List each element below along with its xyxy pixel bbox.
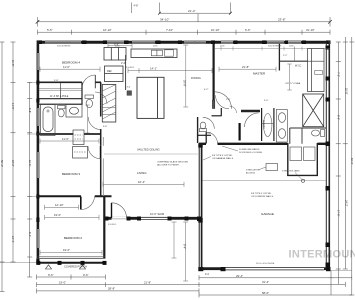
bedroom4 dim line (40, 67, 100, 72)
wall bedroom2 south window band (37, 257, 106, 259)
svg-text:11'-8": 11'-8" (11, 60, 15, 66)
hall bath2 walls (198, 108, 222, 143)
wall bedroom4 south (39, 81, 101, 83)
shower east wall (301, 128, 303, 144)
svg-text:16'-0 x 8'-0 OH DR: 16'-0 x 8'-0 OH DR (256, 263, 275, 265)
svg-text:12'-10": 12'-10" (55, 203, 64, 207)
wall posts top (37, 40, 331, 44)
porch footing triangle 1 (46, 265, 52, 269)
window labels top (57, 46, 294, 48)
kitchen sink (151, 50, 162, 56)
wall closet south (39, 98, 82, 100)
svg-text:GARAGE: GARAGE (261, 212, 274, 216)
svg-text:5'-0 R.O.: 5'-0 R.O. (108, 224, 117, 226)
svg-text:18'-2": 18'-2" (11, 160, 15, 167)
svg-text:8'-4": 8'-4" (183, 244, 187, 249)
svg-text:31'-10": 31'-10" (306, 28, 315, 32)
svg-text:2'-8": 2'-8" (226, 99, 231, 101)
wall bath1 south (37, 133, 74, 135)
svg-text:4'-0: 4'-0 (205, 273, 210, 276)
svg-text:24'-2": 24'-2" (345, 200, 349, 207)
dim bottom B1 (37, 275, 106, 280)
master bath vanity counter (241, 110, 260, 113)
door opening entry south (112, 217, 127, 220)
dim bottom B3 (37, 288, 200, 293)
living dim line (103, 182, 184, 187)
window W8 bedroom4 left (37, 53, 40, 70)
svg-text:INTERMOUNTAIN WEST: INTERMOUNTAIN WEST (289, 249, 355, 261)
door wic2 arc (216, 95, 230, 109)
kitchen upper counter (131, 49, 177, 58)
wall house/garage north (199, 143, 327, 145)
svg-text:5'-8": 5'-8" (28, 108, 31, 113)
master bath cabinets east (308, 49, 325, 92)
porch beam with posts (36, 261, 106, 265)
garage note common wall (251, 193, 274, 198)
bath2 toilet (200, 122, 207, 132)
dim bottom B4 (199, 293, 352, 298)
svg-text:11'-6": 11'-6" (62, 137, 69, 141)
svg-text:REF: REF (107, 70, 112, 73)
dim right R1 (336, 42, 341, 284)
svg-text:7'-10": 7'-10" (166, 28, 173, 32)
svg-text:6'-6": 6'-6" (245, 28, 251, 32)
master toilet (312, 130, 325, 137)
wall hall west (bath/bedroom3 east) (100, 82, 102, 116)
dim left L2 texts (11, 60, 15, 243)
svg-text:19'-0": 19'-0" (59, 280, 66, 284)
svg-text:VAULTED CEILING: VAULTED CEILING (137, 148, 160, 152)
svg-text:31'-4": 31'-4" (262, 280, 269, 284)
kitchen dim line (108, 44, 132, 48)
wall posts garage bottom (198, 267, 330, 271)
vaulted ceiling line (104, 153, 198, 155)
dim bottom B2 (37, 282, 200, 287)
svg-text:W.I.C.: W.I.C. (295, 65, 302, 68)
svg-text:50'-0": 50'-0" (0, 160, 4, 167)
closet divider (60, 83, 62, 99)
svg-text:19'-8": 19'-8" (345, 88, 349, 95)
window W9 bath1 left (37, 108, 40, 126)
svg-text:M.BATH: M.BATH (262, 120, 265, 129)
svg-text:5'-0": 5'-0" (206, 132, 211, 135)
svg-text:20 MIN FIRE RATED: 20 MIN FIRE RATED (239, 148, 260, 151)
dim bottom B2 right ext (199, 282, 345, 287)
fridge box (105, 66, 124, 82)
dim left connector y196 (27, 195, 37, 197)
wic south wall (279, 60, 307, 62)
master bath south wall (290, 127, 326, 129)
dim right R2 texts (345, 88, 349, 207)
door garage leaf and arc (206, 132, 217, 143)
svg-text:17'-8": 17'-8" (337, 210, 340, 216)
door master bath arc (245, 113, 259, 127)
svg-text:LIVING: LIVING (137, 171, 147, 175)
window W11 bedroom2 left (37, 229, 40, 248)
bath1 tub (41, 105, 56, 136)
dim left L2 (11, 42, 16, 262)
dining dim line (128, 68, 212, 73)
dim bottom-right connector (331, 270, 352, 272)
svg-text:ACCESS: ACCESS (246, 171, 256, 174)
entry door leaf and arc (112, 203, 127, 218)
svg-text:11'-6 SH & POLE: 11'-6 SH & POLE (50, 95, 69, 98)
window W7 wic top (288, 41, 301, 44)
svg-text:19'-0": 19'-0" (54, 213, 61, 217)
dim top T3 texts (47, 28, 315, 32)
leader fire door (222, 146, 238, 151)
window W10 bedroom3 left (37, 152, 40, 178)
linen wall dark (239, 123, 241, 141)
svg-text:4'-2": 4'-2" (204, 89, 209, 91)
closet shelf line bedroom4 (39, 88, 82, 90)
door bedroom4 arc (82, 75, 95, 88)
wall posts left (36, 81, 39, 263)
svg-text:3'-0 R.O.: 3'-0 R.O. (126, 67, 135, 69)
bath1 toilet (58, 106, 66, 117)
wic divider (293, 47, 295, 62)
bollard circle (301, 179, 304, 182)
bedroom3 dim line (40, 139, 99, 144)
shower room west wall (261, 108, 263, 141)
dining/master wall (213, 44, 215, 101)
svg-text:3050 EGRESS: 3050 EGRESS (268, 46, 282, 48)
dining/master wall end hatch (212, 100, 214, 109)
dim left connector y133 (27, 133, 37, 135)
shower west wall (289, 128, 291, 144)
hall dim line vertical (183, 45, 188, 107)
wall left exterior (37, 41, 40, 263)
attic access box (266, 164, 278, 171)
svg-text:DOOR SELF-CLOSING: DOOR SELF-CLOSING (239, 152, 263, 154)
shower room shelf (262, 123, 274, 125)
dim left L3 (27, 82, 32, 277)
dim top T2 (38, 17, 331, 27)
svg-text:8'-6": 8'-6" (337, 115, 340, 120)
dim bottom B2 texts (59, 280, 151, 284)
svg-text:21'-8": 21'-8" (144, 280, 151, 284)
svg-text:5/8 TYPE X GYP BD: 5/8 TYPE X GYP BD (251, 193, 272, 195)
mudroom south wall (287, 174, 318, 176)
wall bath1 north (39, 103, 82, 105)
dim bottom B2g garage (199, 275, 352, 280)
door small arc hall (230, 106, 237, 113)
svg-text:STEEL BOLLARD: STEEL BOLLARD (282, 170, 300, 173)
master closet X box (303, 94, 324, 127)
svg-text:14'-6": 14'-6" (11, 103, 15, 110)
wall garage west (199, 143, 201, 269)
svg-text:12'-4": 12'-4" (11, 236, 15, 243)
leader attic (258, 167, 266, 170)
dim left L3 texts (28, 108, 31, 237)
wic west wall (278, 44, 280, 71)
mudroom east wall (316, 143, 318, 176)
dishwasher (127, 91, 132, 96)
garage eave line (203, 180, 327, 182)
door bath2 arc (203, 117, 215, 129)
window W3 kitchen sink top (132, 41, 155, 44)
svg-text:20'-8": 20'-8" (183, 80, 187, 87)
dim top T1 ticks (158, 12, 232, 15)
svg-text:29'-4": 29'-4" (236, 274, 243, 278)
svg-text:(BI) OVER TO FINISH: (BI) OVER TO FINISH (157, 164, 179, 166)
svg-text:9'-6": 9'-6" (83, 273, 89, 277)
svg-text:28'-8": 28'-8" (108, 287, 115, 291)
wall posts living south (104, 217, 203, 222)
svg-text:21'-4": 21'-4" (188, 9, 196, 13)
dim left L1 (0, 42, 5, 292)
svg-text:4'-8": 4'-8" (134, 5, 139, 8)
wall living south exterior (104, 217, 202, 220)
svg-text:16'-4": 16'-4" (138, 180, 145, 184)
svg-text:7'-2": 7'-2" (337, 72, 340, 77)
svg-text:50'-0": 50'-0" (350, 158, 354, 165)
bedroom2 dim line upper (45, 205, 79, 210)
wall right exterior (326, 41, 329, 270)
svg-text:STEEL ATTIC: STEEL ATTIC (246, 169, 260, 172)
svg-text:6'-4": 6'-4" (28, 232, 31, 237)
svg-text:34'-10": 34'-10" (160, 18, 169, 22)
wall top exterior (37, 41, 330, 44)
sliding door living south (141, 217, 168, 220)
extra dim line bath1 vertical (85, 105, 89, 133)
svg-text:19'-0": 19'-0" (63, 248, 70, 252)
leader gyp (203, 157, 211, 161)
door master arc (215, 92, 232, 109)
svg-text:MASTER: MASTER (253, 72, 265, 76)
svg-text:3050 EGRESS: 3050 EGRESS (57, 46, 71, 48)
svg-text:BEDROOM 2: BEDROOM 2 (64, 236, 82, 240)
washer box (290, 147, 302, 161)
attic access note (246, 169, 260, 175)
door bath1 arc (88, 117, 101, 130)
svg-text:58'-0": 58'-0" (262, 291, 269, 295)
svg-text:11'-6": 11'-6" (63, 65, 70, 69)
wall bedroom3/bedroom2 divider (37, 195, 112, 197)
shower room east wall (273, 108, 275, 141)
dim left connector y262 (0, 262, 36, 264)
master window dim row (215, 47, 330, 51)
garage dim line inner (172, 222, 177, 258)
wall posts garage west (198, 143, 202, 222)
wall bedroom2 east (103, 196, 105, 258)
svg-text:6'-8": 6'-8" (103, 126, 108, 128)
dim top T1 (132, 3, 231, 14)
kitchen island (137, 77, 164, 118)
svg-text:DINING: DINING (191, 76, 201, 80)
garage dim line west (183, 222, 188, 281)
dim left connector y82 (27, 81, 37, 83)
linen box (315, 71, 323, 75)
bedroom2 dim line mid (45, 215, 99, 220)
master tub oval (264, 114, 272, 137)
svg-text:2'-2": 2'-2" (283, 55, 288, 57)
svg-text:BEDROOM 4: BEDROOM 4 (62, 60, 80, 64)
closet bedroom3 (73, 147, 88, 159)
window W4 dining top (184, 41, 206, 44)
window W1 bedroom4 top (45, 41, 81, 44)
svg-text:14'-1": 14'-1" (150, 66, 157, 70)
svg-text:COVERED PORCH: COVERED PORCH (64, 265, 87, 269)
door wc arc (95, 92, 107, 104)
bath1 vanity (66, 105, 82, 118)
svg-text:2'-0": 2'-0" (121, 62, 126, 65)
window W2 kitchen left top (107, 41, 124, 44)
svg-text:9'-6": 9'-6" (48, 273, 54, 277)
wall garage bottom exterior (199, 267, 331, 270)
garage note gyp (212, 155, 234, 160)
stairs chase hatched (102, 85, 116, 123)
svg-text:10'-10": 10'-10" (211, 28, 220, 32)
dim top tick x198 (197, 14, 199, 22)
wall wc east (81, 82, 83, 105)
master sink 2 (278, 129, 285, 139)
dim right R3 (349, 37, 354, 295)
dim right R2 (343, 37, 348, 269)
svg-text:3'-0": 3'-0" (264, 100, 269, 102)
svg-text:ON COMMON WALLS: ON COMMON WALLS (251, 195, 274, 198)
dim right R1 texts (337, 72, 340, 216)
svg-text:16'-10": 16'-10" (103, 28, 112, 32)
window W6 master bed top right (267, 41, 284, 44)
dim right R0 short (329, 271, 334, 296)
master bedroom dim line (219, 67, 276, 72)
mudroom west wall (287, 143, 289, 176)
garage note fire door (239, 148, 263, 154)
porch footing triangle 2 (80, 265, 86, 269)
dim top T3 (38, 30, 331, 35)
svg-text:BEDROOM 3: BEDROOM 3 (62, 172, 80, 176)
svg-text:5'-8": 5'-8" (54, 80, 59, 82)
svg-text:16'-0" SLDR: 16'-0" SLDR (150, 212, 164, 216)
pantry cabinet (104, 48, 126, 61)
svg-text:10'-6": 10'-6" (28, 160, 31, 166)
living note text (157, 161, 189, 167)
svg-text:OVERHEAD GLASS GRG DRS: OVERHEAD GLASS GRG DRS (157, 161, 189, 164)
wc toilet (85, 95, 94, 108)
garage door opening (226, 267, 325, 270)
svg-text:5/8 TYPE X GYP BD: 5/8 TYPE X GYP BD (212, 155, 233, 157)
dryer box (304, 147, 316, 161)
leader bollard (295, 173, 302, 180)
svg-text:23'-8": 23'-8" (278, 18, 286, 22)
extra dim line mbath vertical (287, 64, 291, 90)
svg-text:ON GARAGE WALLS: ON GARAGE WALLS (212, 157, 234, 160)
wall hall east / kitchen (125, 55, 127, 90)
window W5 master bed top left (221, 41, 233, 44)
dim top T2 ticks (36, 20, 332, 24)
dim bottom B1 texts (48, 273, 89, 277)
bedroom2 dim line (40, 250, 102, 255)
wall posts right (326, 46, 331, 268)
master sink 1 (278, 113, 285, 123)
svg-text:5'-5": 5'-5" (47, 28, 53, 32)
linen closet bedroom3 (73, 130, 84, 145)
master vanity outline (276, 110, 287, 143)
kitchen range (165, 50, 174, 56)
svg-text:OPT 17'-0 MBA: OPT 17'-0 MBA (285, 82, 301, 85)
door bedroom2 leaf and arc (81, 196, 95, 209)
svg-text:21'-8": 21'-8" (242, 65, 249, 69)
door bedroom3 leaf and arc (100, 146, 102, 159)
